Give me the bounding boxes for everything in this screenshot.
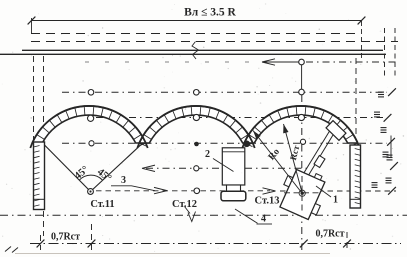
wire vertical dashed x347 dim ext <box>346 232 348 250</box>
node row92 b <box>194 90 200 96</box>
wire dashed row y143 <box>62 142 387 144</box>
tick right end row y143 <box>387 138 395 146</box>
wire top dim extension right vertical <box>361 21 363 58</box>
sight line Ro <box>253 131 302 194</box>
wire tunnel roof line lower <box>0 53 386 55</box>
leader label 1 <box>316 186 331 197</box>
svg-text:45°: 45° <box>95 167 113 185</box>
wire traverse row y191 right <box>280 190 396 192</box>
tick right end row y191 <box>388 187 396 195</box>
arch 3 outer arc <box>242 106 359 148</box>
arch 1 lining band <box>32 106 145 143</box>
svg-text:Ст.11: Ст.11 <box>90 199 114 210</box>
right wall pier <box>350 145 361 208</box>
wire tunnel roof line upper <box>22 49 383 51</box>
arch 3 lining band <box>244 106 357 143</box>
wire vertical solid x301 between circles <box>301 64 303 90</box>
svg-text:0,7Rст: 0,7Rст <box>51 232 80 243</box>
equal mark below y168 tick <box>386 177 392 179</box>
svg-text:Вл ≤ 3.5 R: Вл ≤ 3.5 R <box>184 7 236 19</box>
node row92 c <box>299 89 305 95</box>
svg-text:3: 3 <box>121 175 126 186</box>
erector body (object 1) <box>275 163 332 221</box>
break marks bottom left <box>5 247 11 252</box>
lining block base <box>221 191 246 201</box>
arch 1 outer arc <box>30 106 147 148</box>
wire traverse row y191 left <box>96 190 270 192</box>
equal mark row y92 <box>378 91 384 93</box>
erector boom lines <box>302 130 331 177</box>
lining block neck <box>227 185 241 191</box>
wire solid arrow segment y62 <box>263 61 302 63</box>
node dot below crown2 <box>194 142 199 147</box>
arrowhead Ro <box>253 131 261 140</box>
station node St11 <box>88 189 94 195</box>
svg-text:45°: 45° <box>73 164 91 182</box>
svg-text:0,7Rст: 0,7Rст <box>315 229 344 240</box>
equal mark below row y143 <box>383 151 389 153</box>
wire top dim extension left vertical <box>31 18 33 34</box>
angle arc at St11 <box>79 175 102 180</box>
tick right of top dimension <box>358 17 366 25</box>
node below crown1 <box>89 141 94 146</box>
node below crown3 <box>300 139 305 144</box>
leader label 2 <box>213 159 234 172</box>
wire vertical dashed right edge a <box>384 28 386 76</box>
tick left of top dimension <box>28 17 36 25</box>
arch 2 lining band <box>139 106 252 143</box>
wire vertical dashed right edge b <box>394 28 396 76</box>
erector crosshair horizontal <box>284 192 322 194</box>
sight line Rst <box>284 124 303 194</box>
node crown arch1 <box>88 115 94 121</box>
sight line St11 up-right <box>91 141 146 192</box>
node row168 <box>194 166 199 171</box>
wire dashed row y62 right <box>306 61 398 63</box>
block held on arch by boom <box>326 121 346 141</box>
station node St12 <box>194 188 200 194</box>
check mark below St12 <box>185 207 196 222</box>
tick right end row y168 <box>390 162 398 170</box>
arrow left on row y168 <box>142 165 155 171</box>
scan speckle noise <box>258 7 261 10</box>
erector counterweight on boom <box>314 156 325 168</box>
wire vertical dashed x91 dim ext <box>91 224 93 250</box>
arch 2 outer arc <box>137 106 254 148</box>
arrow right traverse 2 <box>263 188 276 194</box>
wire vertical dashed x356 above right wall <box>355 58 357 138</box>
arrowhead Rst <box>283 124 288 133</box>
wire dash-dot dimension row y243 <box>30 243 401 245</box>
equal mark above y168 tick <box>387 154 393 156</box>
node valley arch23 <box>244 141 250 147</box>
lining block body (object 2) <box>222 148 245 185</box>
wire faint bottom shadow <box>15 253 330 255</box>
erector center pivot <box>299 190 305 196</box>
wire vertical dashed x40 dim ext <box>40 235 42 250</box>
equal mark row y191 <box>372 182 378 184</box>
wire dashed row y92 <box>62 91 387 93</box>
left wall pier <box>34 142 45 210</box>
arrow right traverse 1 <box>154 187 167 193</box>
node crown arch3 <box>298 114 304 120</box>
node row92 a <box>88 90 94 96</box>
wire dashed row y62 left <box>85 61 255 63</box>
wire vertical dashed x43 lower <box>43 211 45 236</box>
wire dashed row y117 <box>96 117 383 119</box>
break symbol on roof lines <box>192 42 199 60</box>
svg-text:4: 4 <box>261 214 266 225</box>
dimension line Вл<=3.5R <box>32 20 362 22</box>
leader label 3 <box>111 185 132 187</box>
erector crosshair vertical <box>301 176 303 214</box>
wire dashed row y41 <box>31 41 398 43</box>
tick right end row y117 <box>384 114 392 122</box>
equal mark above row y143 <box>381 127 387 129</box>
tick dim left b <box>88 240 96 248</box>
wire vertical dashed x33 upper <box>33 56 35 140</box>
tick right end row y92 <box>388 88 396 96</box>
node crown arch2 <box>193 114 199 120</box>
sight line St11 up-left <box>45 145 91 192</box>
svg-text:2: 2 <box>205 149 210 160</box>
tick dim left a <box>37 240 45 248</box>
svg-text:Ro: Ro <box>267 147 282 163</box>
leader label 4 <box>235 209 258 223</box>
equal mark row y117 <box>374 111 380 113</box>
svg-text:1: 1 <box>333 195 338 206</box>
svg-text:Ст.13: Ст.13 <box>255 196 280 207</box>
wire dashed row y33 <box>31 33 360 35</box>
tick dim right a <box>300 240 308 248</box>
wire dashed row y215 <box>0 214 407 216</box>
svg-text:Ст.12: Ст.12 <box>172 199 197 210</box>
wire vertical dashed x301 centerline <box>301 95 303 250</box>
wire vertical dashed x43 upper <box>43 56 45 140</box>
node top right <box>299 59 305 65</box>
arrow left on row y62 <box>262 59 275 65</box>
wire dashed row y168 <box>146 167 310 169</box>
tick dim right b <box>343 240 351 248</box>
wire vertical tick at row y143 end <box>390 136 392 159</box>
